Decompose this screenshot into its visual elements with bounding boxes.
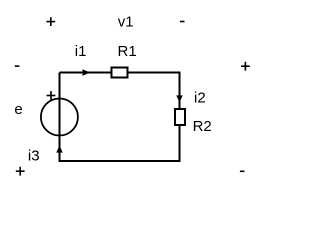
svg-text:e: e	[14, 101, 22, 118]
polarity - (v1 right, top-right)	[180, 21, 185, 23]
wire bottom (node C to node D)	[59, 160, 181, 162]
current arrow i3 (points up)	[56, 145, 62, 152]
svg-text:v1: v1	[118, 14, 134, 31]
svg-text:i2: i2	[194, 90, 206, 107]
current arrow i2 (points down)	[176, 95, 182, 102]
voltage source e (circle)	[41, 99, 78, 136]
svg-text:i3: i3	[28, 148, 40, 165]
polarity - (left mid)	[15, 65, 20, 67]
polarity + (v1 left, top-left)	[46, 17, 55, 26]
polarity + (bottom-left)	[16, 167, 25, 176]
polarity + (right mid)	[241, 62, 250, 71]
svg-text:i1: i1	[75, 43, 87, 60]
resistor R1	[112, 68, 128, 78]
polarity + of source e	[47, 91, 56, 100]
svg-text:R2: R2	[193, 118, 212, 135]
current arrow i1 (points right)	[83, 69, 91, 75]
wire top (node A to R1 to node B)	[60, 72, 180, 74]
svg-text:R1: R1	[118, 43, 137, 60]
polarity - (bottom-right)	[240, 171, 245, 173]
resistor R2	[175, 109, 185, 125]
wire left (node D up through source to node A)	[59, 73, 61, 162]
wire right (node B down to node C)	[179, 72, 181, 162]
